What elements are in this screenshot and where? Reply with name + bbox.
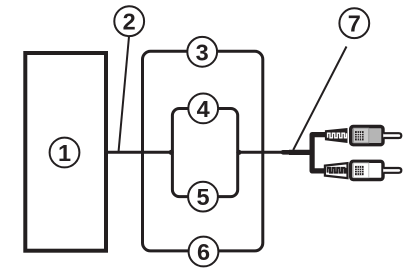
wire loop: inner rectangle (nets 4 and 5)	[172, 109, 237, 197]
leader line to label 7	[293, 47, 346, 151]
RCA plug bottom (white): strain-relief boot	[325, 163, 348, 178]
cable: thick lead to splitter	[289, 150, 311, 155]
svg-text:3: 3	[196, 39, 209, 65]
junction swell at inner-left node	[169, 150, 174, 155]
RCA plug bottom: boot meander pattern	[328, 168, 347, 173]
junction swell at inner-right node	[236, 150, 241, 155]
label circle 6	[189, 237, 219, 267]
svg-text:6: 6	[197, 239, 210, 265]
label circle 4	[188, 94, 218, 124]
cable Y-splitter to both plugs	[312, 135, 327, 171]
RCA plug bottom: center pin	[383, 168, 401, 173]
RCA plug top: boot meander pattern	[328, 133, 347, 138]
RCA plug top: inner panel	[354, 128, 369, 143]
wire loop: outer rectangle (nets 3 and 6)	[143, 51, 263, 251]
label circle 2	[114, 6, 144, 36]
label circle 3	[187, 37, 217, 67]
leader line to label 2	[119, 37, 129, 152]
wire: main lead, right segment	[238, 151, 285, 154]
RCA plug top: waffle block	[355, 131, 364, 140]
svg-text:1: 1	[58, 140, 71, 166]
RCA plug top: center pin	[383, 133, 401, 138]
label circle 1	[50, 138, 80, 168]
svg-text:5: 5	[196, 184, 209, 210]
cable ferrule bump (node 7 attach point)	[283, 150, 290, 155]
RCA plug top (gray): strain-relief boot	[325, 128, 348, 143]
svg-text:7: 7	[348, 11, 361, 37]
label circle 5	[188, 182, 218, 212]
device box (component 1)	[25, 53, 106, 251]
svg-text:4: 4	[197, 96, 210, 122]
wire: main lead, left segment	[106, 151, 172, 154]
RCA plug bottom: inner panel	[354, 163, 369, 178]
RCA plug bottom: waffle block	[355, 166, 364, 175]
RCA plug top: body U1	[351, 127, 383, 145]
svg-text:2: 2	[123, 9, 136, 35]
label circle 7	[339, 8, 369, 38]
RCA plug bottom: body U2	[351, 161, 383, 179]
